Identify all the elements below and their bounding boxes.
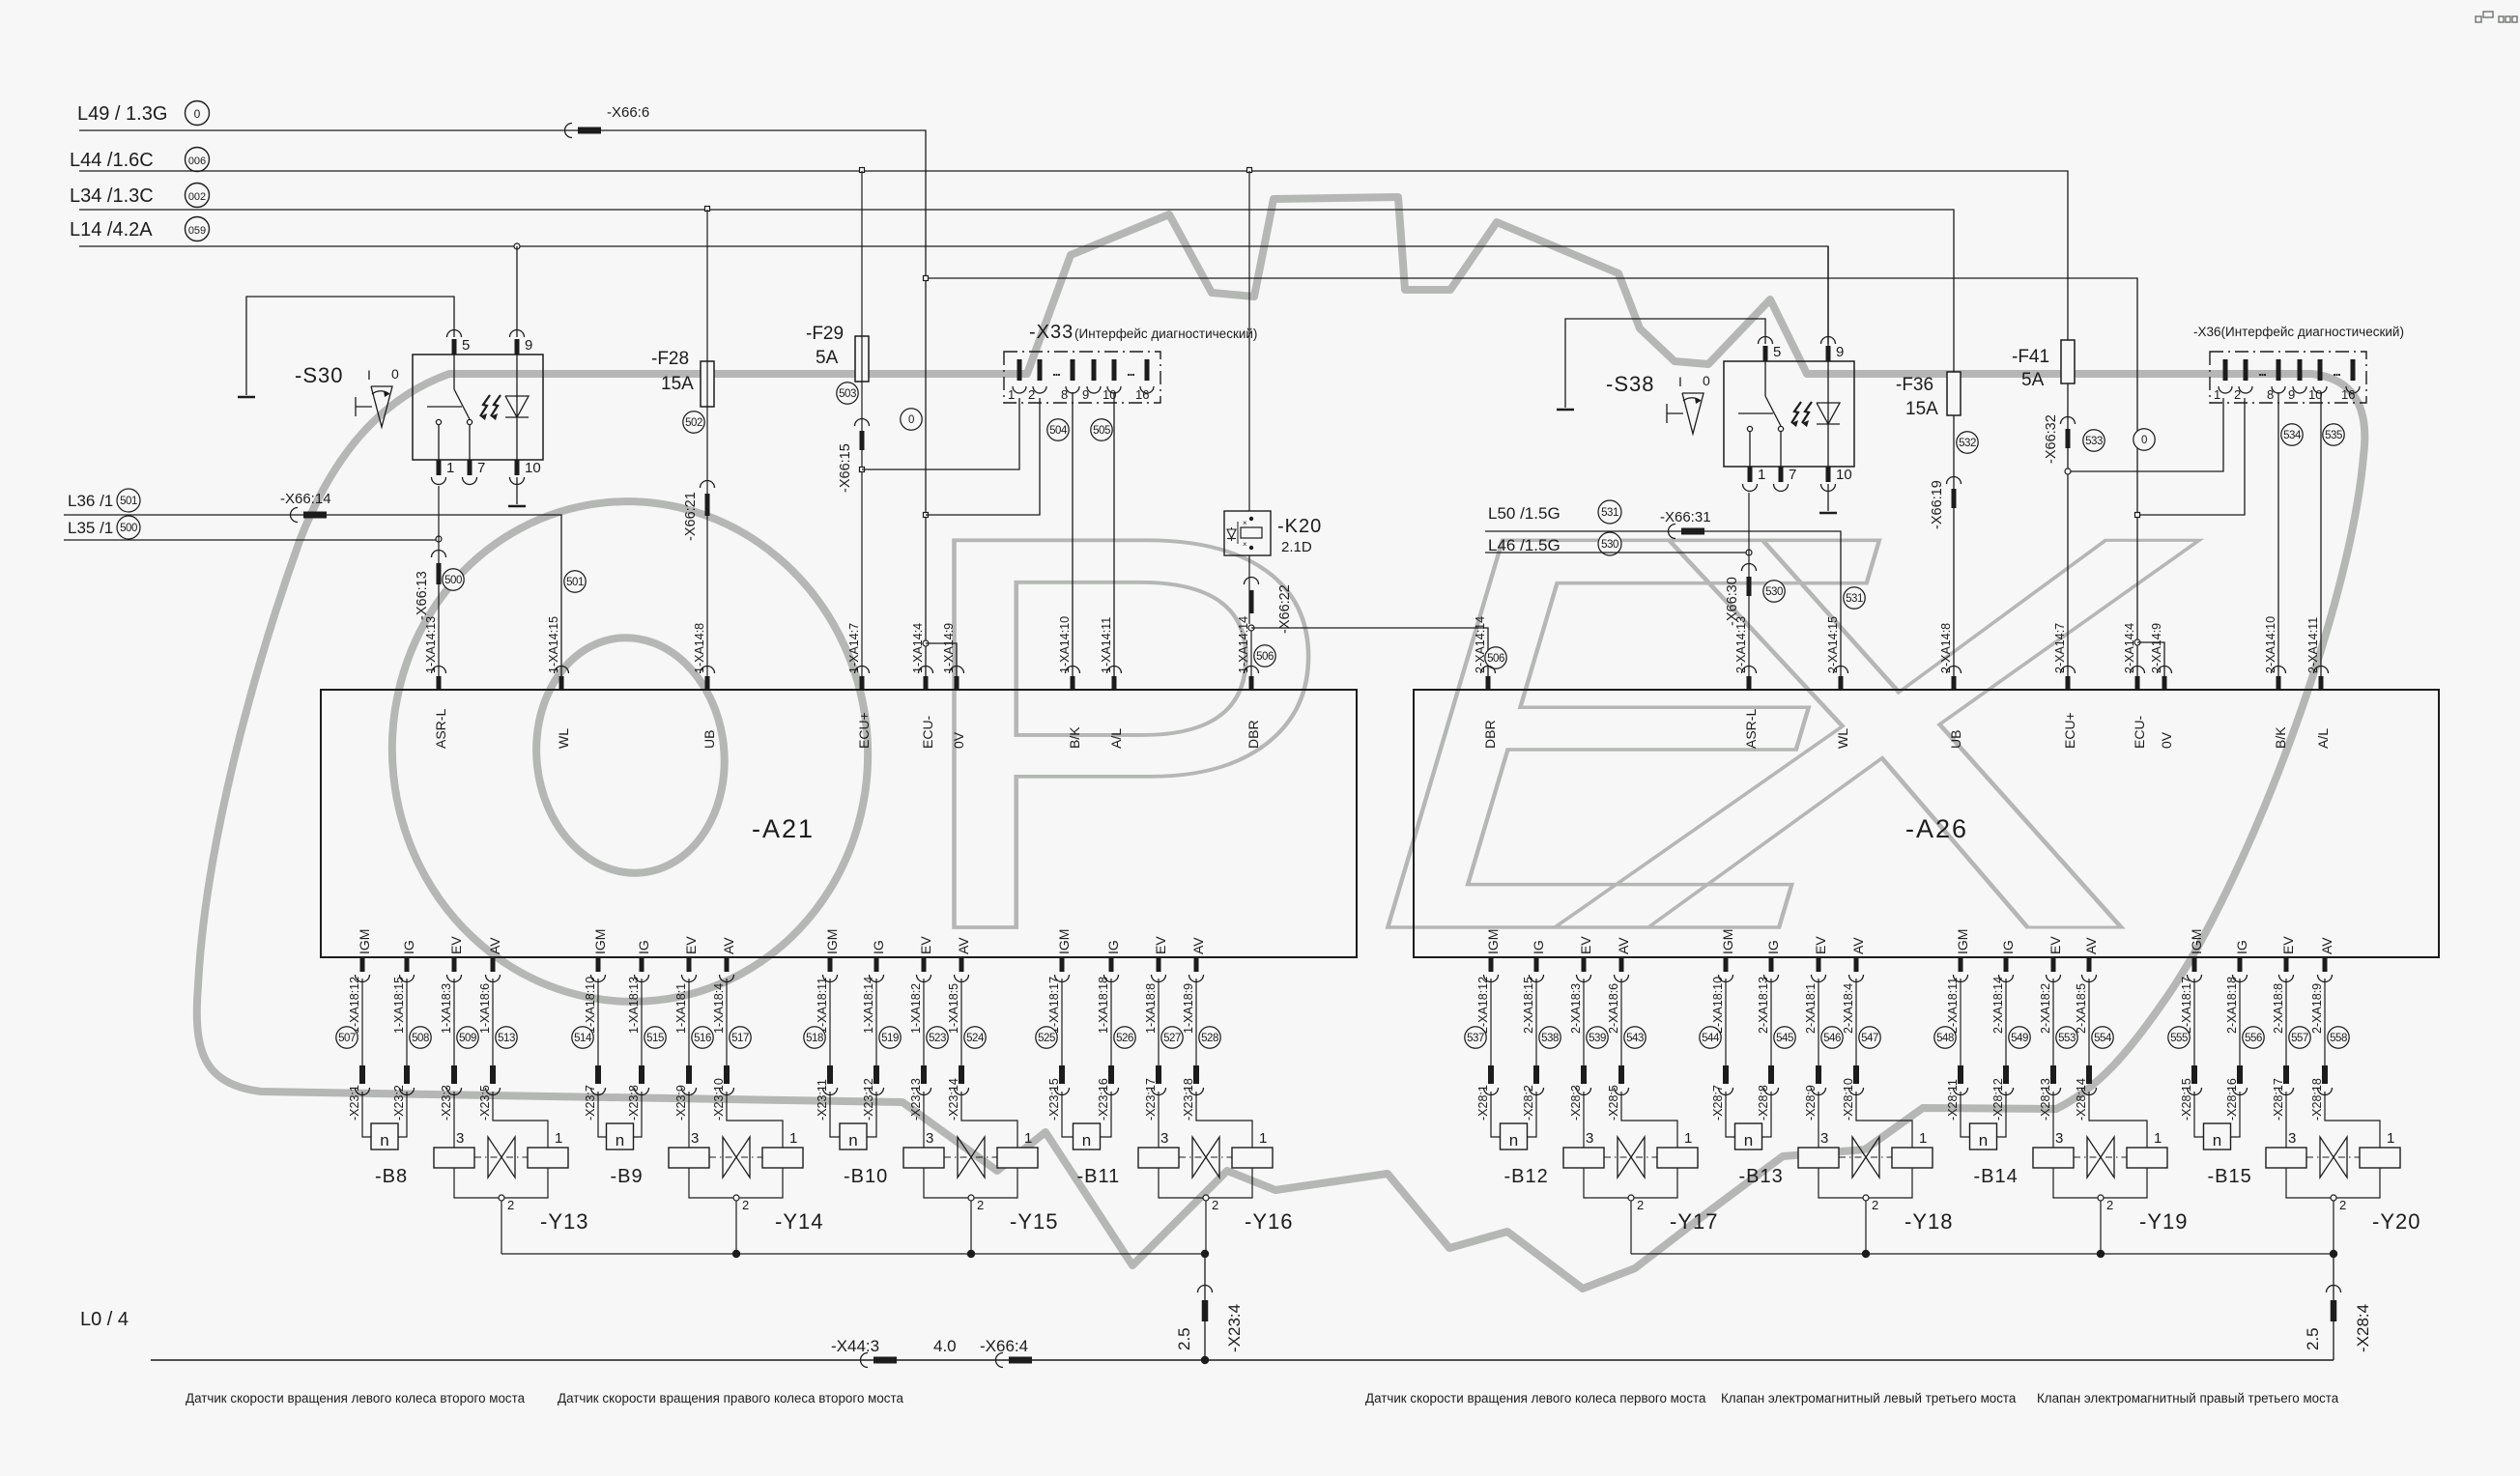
svg-text:WL: WL xyxy=(1835,728,1850,749)
svg-text:515: 515 xyxy=(646,1033,664,1044)
svg-text:n: n xyxy=(848,1131,857,1150)
svg-text:1-XA18:17: 1-XA18:17 xyxy=(1047,977,1061,1034)
S38 pin 10 xyxy=(1826,467,1831,482)
valve Y13 pin 2 node xyxy=(499,1195,504,1201)
svg-text:5A: 5A xyxy=(816,348,839,368)
svg-text:-X28:17: -X28:17 xyxy=(2272,1078,2285,1121)
svg-text:16: 16 xyxy=(1135,387,1149,402)
connector -X28:15 xyxy=(2191,1065,2197,1084)
sensor B14 xyxy=(1970,1123,1997,1150)
node F28 on L34 xyxy=(705,207,710,212)
bus L49 circle 0 xyxy=(186,101,210,126)
node F41-X36 junction xyxy=(2065,468,2071,474)
svg-text:-X23:11: -X23:11 xyxy=(816,1079,829,1121)
svg-text:n: n xyxy=(1509,1131,1518,1150)
svg-text:525: 525 xyxy=(1038,1033,1055,1044)
svg-text:AV: AV xyxy=(956,937,971,954)
svg-text:2-XA18:18: 2-XA18:18 xyxy=(2225,977,2239,1034)
svg-text:1: 1 xyxy=(1684,1130,1692,1147)
connector -X28:18 xyxy=(2322,1065,2328,1084)
svg-text:-X28:13: -X28:13 xyxy=(2039,1078,2052,1121)
wire 519 xyxy=(875,979,877,1065)
wire valve Y13 AV lead xyxy=(493,1092,548,1148)
wire 557 xyxy=(2285,979,2287,1065)
svg-text:0: 0 xyxy=(194,107,201,121)
connector -X23:15 xyxy=(1059,1065,1065,1084)
wire 539 xyxy=(1583,979,1585,1065)
wire sensor B14 left lead xyxy=(1961,1092,1970,1137)
S38 light arrows xyxy=(1791,402,1801,423)
ECU A21 box xyxy=(321,690,1357,957)
svg-text:2-XA14:4: 2-XA14:4 xyxy=(2123,623,2136,673)
svg-text:2: 2 xyxy=(977,1198,984,1212)
S38 pin10 wire to ground xyxy=(1827,484,1829,511)
valve Y18 frame xyxy=(1818,1168,1912,1198)
X36 pin 9 xyxy=(2298,359,2303,381)
svg-text:535: 535 xyxy=(2325,430,2342,441)
svg-text:555: 555 xyxy=(2170,1033,2188,1044)
wire valve Y16 AV lead xyxy=(1196,1092,1252,1148)
valve Y14 frame xyxy=(689,1168,783,1198)
valve Y18 pin 2 node xyxy=(1863,1195,1869,1201)
S38 pin5 wire to ground xyxy=(1565,319,1765,408)
svg-text:2-XA18:1: 2-XA18:1 xyxy=(1804,983,1818,1034)
connector -X28:3 xyxy=(1581,1065,1587,1084)
pin 2-XA14:4 (ECU-) xyxy=(2135,676,2140,690)
svg-text:-X28:11: -X28:11 xyxy=(1946,1079,1960,1121)
wire L14 xyxy=(79,246,1828,346)
svg-text:EV: EV xyxy=(918,936,933,954)
svg-text:2-XA18:11: 2-XA18:11 xyxy=(1946,978,1960,1034)
wire number 548 xyxy=(1934,1027,1956,1048)
svg-text:1-XA14:15: 1-XA14:15 xyxy=(547,616,560,673)
svg-text:Датчик скорости вращения левог: Датчик скорости вращения левого колеса в… xyxy=(186,1391,526,1405)
bus L34 circle 002 xyxy=(186,184,210,208)
svg-text:ASR-L: ASR-L xyxy=(433,709,448,749)
junction Y19 xyxy=(2097,1250,2105,1258)
svg-text:531: 531 xyxy=(1846,593,1863,605)
svg-text:-X66:15: -X66:15 xyxy=(838,443,853,493)
wire number 517 xyxy=(730,1027,751,1048)
svg-text:2-XA14:15: 2-XA14:15 xyxy=(1826,616,1840,673)
wire number 513 xyxy=(496,1027,517,1048)
svg-text:0V: 0V xyxy=(2159,731,2174,749)
pin 1-XA14:13 (ASR-L) xyxy=(437,676,442,690)
svg-text:-X28:14: -X28:14 xyxy=(2075,1078,2088,1121)
svg-text:006: 006 xyxy=(188,156,206,167)
svg-text:2-XA14:14: 2-XA14:14 xyxy=(1474,616,1487,673)
valve Y17 pin 2 node xyxy=(1628,1195,1634,1201)
svg-text:516: 516 xyxy=(694,1033,711,1044)
connector -X66:30 xyxy=(1742,564,1757,572)
node 0V branch right xyxy=(2134,639,2140,645)
svg-text:I: I xyxy=(1678,374,1682,389)
svg-text:2.1D: 2.1D xyxy=(1281,539,1312,555)
wire number 0 (left) xyxy=(901,409,922,430)
svg-text:EV: EV xyxy=(1813,936,1828,954)
valve Y14 coil 3 xyxy=(669,1148,709,1168)
svg-text:-X23:10: -X23:10 xyxy=(712,1078,726,1121)
wire X36 pin2 link xyxy=(2137,398,2245,515)
bus L35 circle 500 xyxy=(117,516,140,539)
X36 pin 1 xyxy=(2223,359,2228,381)
wire 517 xyxy=(726,979,728,1065)
wire L35 xyxy=(64,539,439,541)
svg-text:L49 / 1.3G: L49 / 1.3G xyxy=(77,103,167,125)
svg-text:IG: IG xyxy=(636,940,651,954)
svg-text:-B13: -B13 xyxy=(1739,1166,1784,1187)
svg-text:-X36(Интерфейс диагностический: -X36(Интерфейс диагностический) xyxy=(2193,325,2404,339)
node L35 to S30 pin1 xyxy=(436,536,442,542)
wire valve Y14 AV lead xyxy=(727,1092,783,1148)
wire valve Y16 EV lead xyxy=(1158,1092,1160,1148)
wire number 527 xyxy=(1161,1027,1183,1048)
wire number 545 xyxy=(1774,1027,1795,1048)
wire 528 xyxy=(1195,979,1197,1065)
pin 1-XA14:8 (UB) xyxy=(705,676,710,690)
svg-text:EV: EV xyxy=(1153,936,1168,954)
svg-text:8: 8 xyxy=(2267,387,2274,402)
wire UB left (F28) xyxy=(706,210,708,690)
svg-text:2.5: 2.5 xyxy=(2304,1327,2322,1350)
svg-text:544: 544 xyxy=(1702,1033,1720,1044)
wire ASR-L left xyxy=(438,486,440,690)
svg-text:534: 534 xyxy=(2283,430,2302,441)
svg-text:-X23:7: -X23:7 xyxy=(584,1085,597,1121)
connector -X23:2 xyxy=(404,1065,410,1084)
wire number 503 xyxy=(837,383,858,404)
svg-text:1-XA14:13: 1-XA14:13 xyxy=(424,616,438,673)
svg-text:-X23:9: -X23:9 xyxy=(674,1085,688,1121)
svg-text:3: 3 xyxy=(1160,1130,1168,1147)
svg-text:2-XA18:8: 2-XA18:8 xyxy=(2272,983,2285,1034)
svg-text:-X28:10: -X28:10 xyxy=(1842,1078,1855,1121)
svg-text:546: 546 xyxy=(1823,1033,1841,1044)
wire number 506 left xyxy=(1254,645,1275,667)
pin 1-XA14:7 (ECU+) xyxy=(860,676,865,690)
wire sensor B8 left lead xyxy=(362,1092,371,1137)
connector -X28:11 xyxy=(1958,1065,1963,1084)
wire 548 xyxy=(1960,979,1962,1065)
svg-text:1-XA18:18: 1-XA18:18 xyxy=(1097,977,1110,1034)
wire sensor B11 right lead xyxy=(1101,1092,1112,1137)
X33 pin 2 xyxy=(1038,359,1043,381)
wire valve return bus right xyxy=(1631,1253,2334,1255)
wire X33 pin2 link xyxy=(926,398,1040,515)
svg-text:556: 556 xyxy=(2245,1033,2262,1044)
wire number 502 xyxy=(683,412,704,433)
svg-text:1: 1 xyxy=(1919,1130,1927,1147)
svg-text:-X23:5: -X23:5 xyxy=(478,1085,492,1121)
svg-text:547: 547 xyxy=(1861,1033,1878,1044)
S30 pin9 wire xyxy=(516,246,518,337)
connector -X23:9 xyxy=(686,1065,692,1084)
svg-text:2-XA14:11: 2-XA14:11 xyxy=(2306,617,2320,673)
X33 pin 1 xyxy=(1017,359,1022,381)
node K20 on L44 xyxy=(1247,168,1252,173)
svg-text:3: 3 xyxy=(1586,1130,1593,1147)
wire number 530 b xyxy=(1763,581,1785,602)
svg-text:0: 0 xyxy=(391,366,399,382)
S30 actuator xyxy=(371,386,392,427)
S30 light arrows xyxy=(480,395,490,416)
svg-text:2: 2 xyxy=(1872,1198,1878,1212)
node X66:6 line to X33 pin2 xyxy=(924,513,929,518)
svg-text:2: 2 xyxy=(1212,1198,1218,1212)
svg-text:539: 539 xyxy=(1589,1033,1606,1044)
S30 pin 5 xyxy=(452,339,457,355)
svg-text:L14 /4.2A: L14 /4.2A xyxy=(70,219,153,241)
svg-text:1-XA18:2: 1-XA18:2 xyxy=(909,983,923,1034)
svg-text:WL: WL xyxy=(556,728,571,749)
valve Y15 pin 2 node xyxy=(968,1195,974,1201)
svg-text:15A: 15A xyxy=(1905,399,1938,419)
wire 513 xyxy=(492,979,494,1065)
svg-text:n: n xyxy=(2213,1131,2221,1150)
svg-text:Датчик скорости вращения право: Датчик скорости вращения правого колеса … xyxy=(558,1391,903,1405)
svg-text:ASR-L: ASR-L xyxy=(1743,709,1759,749)
svg-text:530: 530 xyxy=(1765,586,1783,598)
valve Y18 coil 3 xyxy=(1798,1148,1839,1168)
S38 switch contact xyxy=(1764,361,1766,396)
wire valve Y18 AV lead xyxy=(1856,1092,1912,1148)
wire 508 xyxy=(406,979,408,1065)
pin 2-XA14:9 (0V) xyxy=(2162,676,2167,690)
svg-text:2-XA14:9: 2-XA14:9 xyxy=(2150,623,2163,673)
wire valve Y20 return xyxy=(2333,1201,2334,1254)
wire number 558 xyxy=(2328,1027,2349,1048)
svg-text:-X23:16: -X23:16 xyxy=(1097,1078,1110,1121)
svg-text:2-XA18:6: 2-XA18:6 xyxy=(1607,983,1620,1034)
svg-text:500: 500 xyxy=(120,523,137,534)
wire X36 pin1 link xyxy=(2068,398,2223,471)
svg-text:1: 1 xyxy=(1758,467,1765,483)
svg-text:533: 533 xyxy=(2085,436,2103,447)
sensor B10 xyxy=(840,1123,867,1150)
sensor B15 xyxy=(2204,1123,2231,1150)
wire L46 xyxy=(1485,552,1749,553)
connector -X23:13 xyxy=(921,1065,927,1084)
svg-text:2-XA18:3: 2-XA18:3 xyxy=(1569,983,1583,1034)
svg-text:IGM: IGM xyxy=(1955,929,1970,954)
svg-text:L46 /1.5G: L46 /1.5G xyxy=(1488,536,1561,554)
connector -X28:5 xyxy=(1618,1065,1624,1084)
corner glyphs xyxy=(2476,12,2517,22)
X33 pin 16 xyxy=(1145,359,1150,381)
wire X33 pin10 to A/L xyxy=(1113,392,1115,690)
wire sensor B12 left lead xyxy=(1491,1092,1501,1137)
wire sensor B15 right lead xyxy=(2231,1092,2241,1137)
wire X36 pin10 to A/L xyxy=(2320,392,2322,690)
wire number 554 xyxy=(2092,1027,2113,1048)
svg-text:-Y17: -Y17 xyxy=(1670,1209,1718,1234)
node ECU- right to X36 pin2 xyxy=(2135,513,2140,518)
wire number 500 b xyxy=(443,569,464,590)
connector -X23:10 xyxy=(724,1065,730,1084)
S38 LED xyxy=(1827,361,1829,467)
switch S30 box xyxy=(413,355,543,460)
svg-text:3: 3 xyxy=(1820,1130,1828,1147)
svg-text:DBR: DBR xyxy=(1246,720,1261,749)
svg-text:-X66:13: -X66:13 xyxy=(415,571,430,620)
connector -X66:19 xyxy=(1947,477,1962,484)
svg-text:-B14: -B14 xyxy=(1974,1166,2019,1187)
svg-text:AV: AV xyxy=(721,937,736,954)
wire X23:4 drop xyxy=(1204,1254,1206,1360)
wire sensor B14 right lead xyxy=(1997,1092,2007,1137)
ground S30 xyxy=(238,396,255,399)
wire valve Y15 return xyxy=(970,1201,972,1254)
wire number 525 xyxy=(1036,1027,1057,1048)
svg-text:AV: AV xyxy=(1616,937,1631,954)
valve Y19 coil 1 xyxy=(2127,1148,2167,1168)
connector -X66:32 xyxy=(2061,417,2076,424)
S30 pin5 wire to ground xyxy=(246,297,454,395)
wire 507 xyxy=(361,979,363,1065)
S38 actuator xyxy=(1682,393,1704,434)
svg-text:IGM: IGM xyxy=(1720,929,1735,954)
fuse F36 xyxy=(1947,372,1961,415)
wire 515 xyxy=(641,979,643,1065)
node S30 pin9 on L14 xyxy=(514,243,520,249)
svg-text:506: 506 xyxy=(1487,653,1504,665)
relay K20 xyxy=(1224,511,1271,555)
svg-text:3: 3 xyxy=(456,1130,464,1147)
svg-text:554: 554 xyxy=(2094,1033,2112,1044)
svg-text:AV: AV xyxy=(1190,937,1206,954)
connector X36 box xyxy=(2210,352,2366,403)
S30 pin 7 xyxy=(468,460,472,475)
connector -X23:11 xyxy=(827,1065,833,1084)
svg-text:059: 059 xyxy=(188,225,206,237)
wire valve Y18 EV lead xyxy=(1818,1092,1819,1148)
wire L49 xyxy=(79,130,926,690)
wire number 501 b xyxy=(564,571,586,592)
svg-text:2-XA14:7: 2-XA14:7 xyxy=(2053,623,2067,673)
svg-text:-X66:31: -X66:31 xyxy=(1660,509,1711,525)
wire number 528 xyxy=(1199,1027,1220,1048)
svg-text:5A: 5A xyxy=(2021,370,2045,390)
wire number 537 xyxy=(1465,1027,1486,1048)
wire number 555 xyxy=(2168,1027,2190,1048)
svg-text:2-XA18:2: 2-XA18:2 xyxy=(2039,983,2052,1034)
svg-text:-B10: -B10 xyxy=(844,1166,888,1187)
wire 546 xyxy=(1818,979,1819,1065)
wire 525 xyxy=(1061,979,1063,1065)
svg-text:1: 1 xyxy=(446,460,454,476)
svg-text:-X23:18: -X23:18 xyxy=(1182,1078,1195,1121)
svg-text:0V: 0V xyxy=(951,731,966,749)
svg-text:IGM: IGM xyxy=(592,929,608,954)
node F29 on L44 xyxy=(860,168,865,173)
bus L14 circle 059 xyxy=(186,217,210,241)
wire valve Y19 EV lead xyxy=(2052,1092,2054,1148)
wire 538 xyxy=(1535,979,1537,1065)
svg-text:2-XA18:10: 2-XA18:10 xyxy=(1711,977,1725,1034)
wire valve Y16 return xyxy=(1205,1201,1207,1254)
S30 pin10 wire to ground xyxy=(516,477,518,504)
wire ASR-L right xyxy=(1748,493,1750,690)
fuse F29 xyxy=(855,336,869,382)
svg-text:IG: IG xyxy=(1765,940,1781,954)
svg-text:1-XA18:14: 1-XA18:14 xyxy=(862,977,875,1034)
svg-text:1-XA18:1: 1-XA18:1 xyxy=(674,983,688,1034)
svg-text:A/L: A/L xyxy=(2315,728,2331,749)
svg-text:UB: UB xyxy=(702,730,717,749)
svg-text:-B9: -B9 xyxy=(611,1166,644,1187)
valve Y17 coil 3 xyxy=(1563,1148,1604,1168)
node ECU- left xyxy=(924,276,929,281)
S38 pin 9 xyxy=(1826,346,1831,361)
svg-text:IG: IG xyxy=(2000,940,2016,954)
wire number 544 xyxy=(1700,1027,1721,1048)
svg-text:538: 538 xyxy=(1541,1033,1559,1044)
svg-text:2: 2 xyxy=(2106,1198,2113,1212)
wire sensor B13 left lead xyxy=(1726,1092,1735,1137)
svg-text:-B15: -B15 xyxy=(2208,1166,2252,1187)
valve Y18 body xyxy=(1852,1137,1879,1178)
junction X23:4 on L0 xyxy=(1201,1356,1209,1364)
svg-text:9: 9 xyxy=(1836,344,1844,360)
svg-text:1-XA18:8: 1-XA18:8 xyxy=(1144,983,1158,1034)
svg-text:Клапан электромагнитный левый: Клапан электромагнитный левый третьего м… xyxy=(1721,1391,2017,1405)
svg-text:×: × xyxy=(1243,519,1247,527)
svg-text:537: 537 xyxy=(1467,1033,1484,1044)
valve Y20 coil 3 xyxy=(2266,1148,2306,1168)
svg-text:1: 1 xyxy=(1024,1130,1032,1147)
svg-text:×: × xyxy=(1243,540,1247,549)
svg-text:558: 558 xyxy=(2330,1033,2347,1044)
svg-text:1-XA14:4: 1-XA14:4 xyxy=(911,623,925,673)
wire sensor B12 right lead xyxy=(1528,1092,1537,1137)
svg-text:553: 553 xyxy=(2058,1033,2076,1044)
svg-text:2-XA14:13: 2-XA14:13 xyxy=(1734,616,1748,673)
svg-text:-X23:13: -X23:13 xyxy=(909,1078,923,1121)
wire 553 xyxy=(2052,979,2054,1065)
svg-text:-Y16: -Y16 xyxy=(1245,1209,1293,1234)
svg-text:ECU-: ECU- xyxy=(920,715,935,749)
wire number 532 xyxy=(1957,432,1978,453)
connector -X23:18 xyxy=(1193,1065,1199,1084)
svg-text:-X28:16: -X28:16 xyxy=(2225,1078,2239,1121)
svg-text:3: 3 xyxy=(2288,1130,2296,1147)
svg-text:2-XA18:4: 2-XA18:4 xyxy=(1842,983,1855,1034)
svg-text:505: 505 xyxy=(1093,425,1110,437)
svg-text:503: 503 xyxy=(839,388,856,400)
watermark letter O xyxy=(367,478,892,1026)
svg-text:0: 0 xyxy=(2141,435,2147,446)
connector -X28:12 xyxy=(2003,1065,2009,1084)
svg-text:L36 /1: L36 /1 xyxy=(68,492,113,510)
wire number 534 xyxy=(2281,424,2303,445)
svg-text:7: 7 xyxy=(477,460,485,476)
valve Y19 frame xyxy=(2053,1168,2147,1198)
wire sensor B15 left lead xyxy=(2194,1092,2204,1137)
valve Y16 coil 1 xyxy=(1232,1148,1273,1168)
svg-text:526: 526 xyxy=(1116,1033,1133,1044)
svg-text:n: n xyxy=(1979,1131,1988,1150)
wire number 539 xyxy=(1587,1027,1608,1048)
svg-text:1: 1 xyxy=(1259,1130,1267,1147)
svg-text:IG: IG xyxy=(871,940,886,954)
wire valve Y17 EV lead xyxy=(1583,1092,1585,1148)
svg-text:557: 557 xyxy=(2291,1033,2308,1044)
svg-text:523: 523 xyxy=(929,1033,946,1044)
svg-text:-A26: -A26 xyxy=(1905,814,1968,843)
svg-text:530: 530 xyxy=(1601,539,1618,551)
wire sensor B13 right lead xyxy=(1762,1092,1772,1137)
svg-text:-B8: -B8 xyxy=(375,1166,408,1187)
